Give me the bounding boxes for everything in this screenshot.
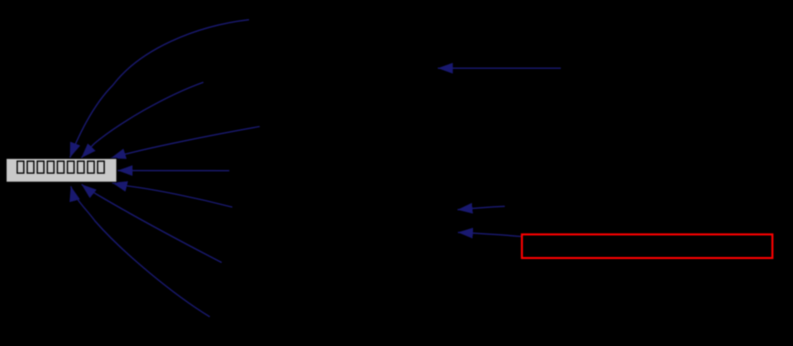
edge E3 (third caller, nearly straight into node top-right corner) [111,127,260,159]
node label: 9 missing-glyph (tofu) boxes [17,161,104,173]
edge E8 (horizontal arrow upper right, between hidden nodes) [438,67,561,69]
edge E10 (arrow from red node into hidden node) [458,232,521,236]
node: current function (grey filled box) [6,158,117,182]
edge E1 (top-most caller, curves from upper right into node top) [70,20,249,158]
edge E4 (horizontal caller into node right edge) [118,170,230,172]
edge E5 (caller from lower right into node bottom-right corner) [112,183,232,207]
edge E7 (bottom-most caller curve into node bottom) [71,186,210,316]
edge E2 (second caller curve into node top) [81,82,203,158]
node: truncated caller (red outlined box, lower right) [522,234,773,258]
edge E9 (short arrow mid right, into hidden node) [458,206,505,209]
edge E6 (caller curve into node bottom) [82,184,222,262]
